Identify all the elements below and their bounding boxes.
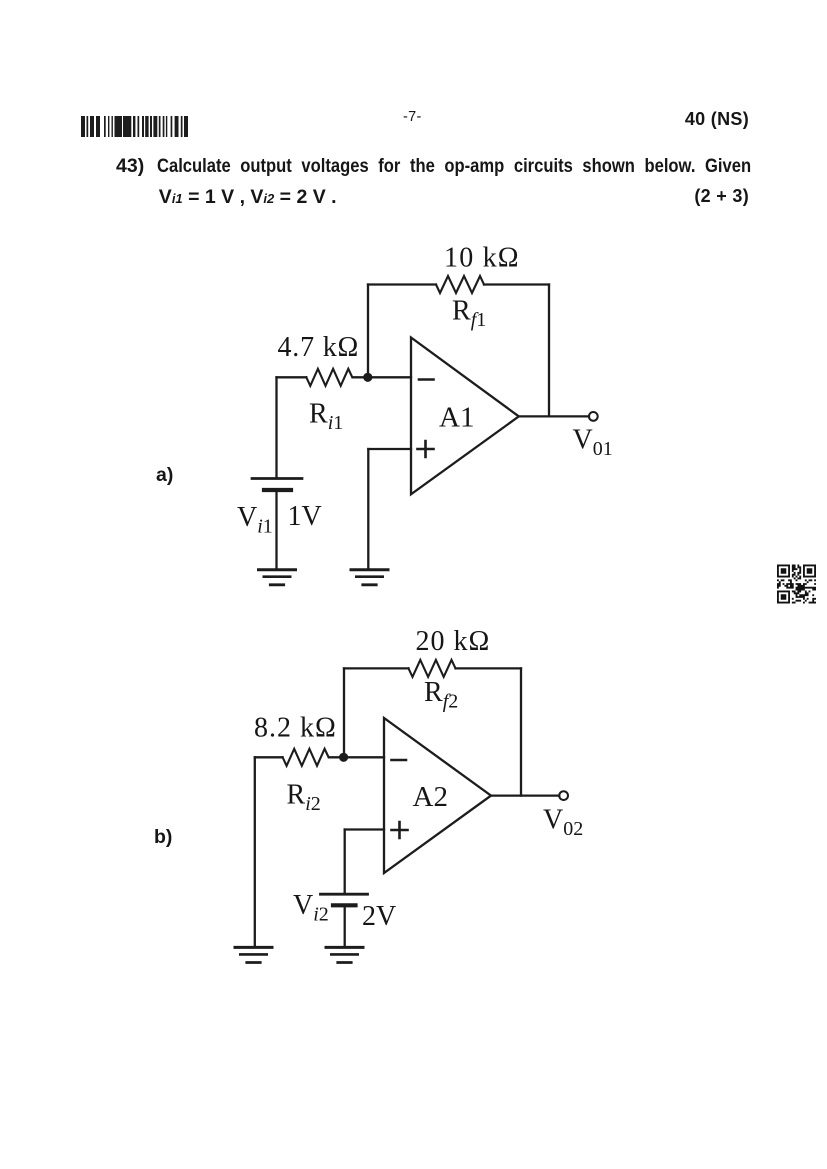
wire: circuit b input left vertical to ground: [254, 757, 256, 946]
svg-text:4.7 kΩ: 4.7 kΩ: [278, 332, 360, 363]
wire: circuit b feedback top: [344, 667, 521, 669]
barcode: [81, 116, 190, 137]
ground: circuit b input ground: [235, 946, 272, 949]
wire: circuit b output: [491, 794, 559, 796]
svg-text:A2: A2: [413, 781, 448, 813]
wire: circuit a noninverting input vertical to ground: [367, 449, 369, 568]
svg-text:8.2 kΩ: 8.2 kΩ: [254, 713, 337, 744]
op-amp A1 minus input pin: [419, 378, 434, 381]
question text line 2: [159, 186, 337, 209]
svg-text:A1: A1: [439, 402, 474, 434]
wire: circuit a output: [519, 415, 589, 417]
page number -7-: [403, 109, 422, 125]
resistor Ri1 zigzag: [306, 369, 352, 386]
wire: circuit a feedback left vertical: [367, 285, 369, 378]
op-amp A2 triangle: [384, 718, 491, 873]
wire: circuit a battery bottom lead: [275, 492, 277, 568]
wire: circuit a feedback right vertical: [548, 285, 550, 417]
node: circuit b inverting input junction: [339, 753, 348, 762]
resistor Ri2 zigzag: [283, 749, 329, 766]
label a): [156, 464, 173, 487]
wire: circuit b feedback left vertical: [343, 668, 345, 757]
wire: circuit a battery top lead: [275, 377, 277, 477]
svg-text:2V: 2V: [362, 901, 396, 932]
battery Vi1 plates: [252, 477, 302, 480]
ground: circuit a battery ground: [259, 568, 296, 571]
svg-text:V01: V01: [573, 425, 613, 461]
svg-text:Ri1: Ri1: [309, 399, 343, 435]
svg-text:V02: V02: [543, 805, 583, 841]
output terminal V02 circle: [559, 791, 568, 800]
wire: circuit b input horizontal: [255, 756, 384, 758]
svg-text:20 kΩ: 20 kΩ: [416, 626, 491, 657]
wire: circuit a noninverting input horizontal: [368, 448, 411, 450]
svg-text:10 kΩ: 10 kΩ: [444, 243, 520, 274]
battery Vi2 plates: [321, 893, 368, 896]
resistor Rf1 zigzag: [436, 276, 484, 293]
QR code: [777, 565, 816, 604]
ground: circuit a noninverting input ground: [351, 568, 388, 571]
wire: circuit b noninverting input horizontal: [345, 828, 384, 830]
svg-text:Ri2: Ri2: [287, 780, 321, 816]
wire: circuit b battery bottom lead: [344, 907, 346, 946]
svg-text:Vi1: Vi1: [237, 502, 273, 538]
node: circuit a inverting input junction: [363, 373, 372, 382]
svg-text:1V: 1V: [288, 501, 322, 532]
question text line 1: [157, 155, 751, 178]
op-amp A1 plus input pin: [418, 441, 434, 457]
wire: circuit b feedback right vertical: [520, 668, 522, 795]
op-amp A2 plus input pin: [392, 822, 408, 838]
op-amp A1 triangle: [411, 338, 519, 495]
wire: circuit a input horizontal: [277, 376, 412, 378]
output terminal V01 circle: [589, 412, 598, 421]
svg-text:Rf1: Rf1: [452, 296, 486, 332]
ground: circuit b battery ground: [326, 946, 363, 949]
wire: circuit b noninverting input vertical: [344, 830, 346, 893]
svg-text:Rf2: Rf2: [424, 677, 458, 713]
wire: circuit a feedback top: [368, 283, 549, 285]
header 40 (NS): [649, 109, 749, 130]
marks (2 + 3): [649, 186, 749, 207]
question number 43): [116, 155, 144, 178]
label b): [154, 826, 172, 849]
op-amp A2 minus input pin: [392, 759, 407, 762]
resistor Rf2 zigzag: [409, 660, 456, 677]
